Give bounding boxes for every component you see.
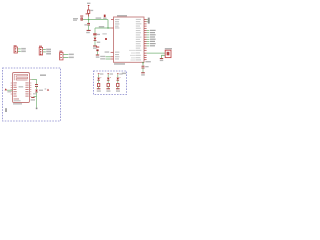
LED D5 [97, 78, 100, 80]
frame label WIFI [40, 74, 46, 76]
module right pins [30, 80, 32, 97]
frame LED box [94, 71, 127, 95]
wire power rail [83, 19, 108, 21]
wire down to capacitor [88, 20, 90, 24]
wire [98, 80, 100, 83]
diode D3 [96, 46, 99, 54]
ground GND7 [97, 88, 101, 90]
frame WIFI module box [3, 68, 61, 121]
wire IC bottom pin down [142, 64, 144, 66]
supply arrow at module left [5, 88, 13, 92]
resistor R2 [97, 83, 99, 86]
capacitor C3 [142, 66, 149, 68]
junction node at IC rail [107, 27, 108, 28]
connector X1 power input [73, 15, 83, 20]
wire capacitor to ground [142, 68, 144, 73]
wire capacitor to LED [36, 86, 38, 89]
LED column 1 [97, 73, 104, 92]
IC refdes text [117, 15, 127, 17]
module value text [13, 103, 22, 104]
capacitor C4 [35, 85, 38, 87]
small part right middle of box [45, 88, 50, 90]
ground GND2 [93, 46, 97, 49]
frame label LEDS [122, 73, 126, 75]
wire button to ground [162, 55, 166, 58]
ground GND1 [86, 30, 90, 33]
IC left pins [111, 20, 114, 59]
right net labels [150, 30, 156, 47]
module center text [19, 86, 24, 87]
net stub L1 [98, 74, 100, 77]
pushbutton S1 [165, 48, 172, 58]
wire [107, 80, 109, 83]
ground GND4 [141, 73, 145, 76]
wire left pin B [106, 58, 111, 60]
net stub L2 [107, 74, 109, 77]
gray text right of bottom edge [145, 61, 150, 62]
wire resistor to LED [94, 36, 96, 38]
net label VCC on rail [96, 17, 102, 18]
small gray text bottom-left of box [5, 108, 7, 112]
small part left of IC [102, 33, 107, 40]
LED D2 power indicator [94, 38, 101, 43]
IC IC1 body [114, 17, 145, 62]
module U2 ESP body [13, 73, 30, 103]
connector CN3 [59, 51, 73, 60]
wire LED to ground [94, 41, 96, 46]
resistor R1 [93, 33, 100, 35]
wire antenna stub [36, 97, 38, 108]
LED column 3 [116, 73, 123, 92]
IC right pin labels [136, 19, 142, 61]
junction power node [88, 19, 90, 21]
net stub L3 [117, 74, 119, 77]
connector CN2 [39, 46, 51, 55]
LED D6 [107, 78, 110, 80]
ground GND5 [96, 55, 100, 58]
supply VCC symbol [87, 3, 90, 10]
wire rail corner down at x108 [108, 20, 111, 28]
module left pins [11, 83, 13, 94]
connector CN1 [14, 45, 26, 53]
capacitor C1 [84, 23, 90, 25]
wire vcc branch to IC [95, 27, 111, 29]
antenna end [36, 108, 38, 110]
crystal Q1 [148, 18, 150, 24]
ground GND8 [106, 88, 110, 90]
wire LED down and to ground [33, 92, 36, 97]
antenna meander [14, 74, 27, 80]
wire left pin A [106, 56, 111, 58]
wire [117, 87, 119, 89]
left pin net labels [100, 51, 109, 59]
module pin name texts [13, 82, 28, 96]
right net label wires [147, 31, 150, 46]
ground GND6 [31, 97, 35, 100]
wire crystal pin 2 [147, 21, 148, 23]
resistor R4 [117, 83, 119, 86]
IC bottom pin [142, 62, 144, 63]
resistor R3 [107, 83, 109, 86]
IC value text [114, 63, 125, 64]
LED D4 [33, 90, 43, 95]
ground GND3 [160, 59, 163, 62]
wire reset long [147, 52, 165, 54]
wire power LED branch [94, 28, 96, 33]
module inner bottom text [14, 98, 19, 99]
IC long right labels faint [129, 50, 136, 61]
net label on IC rail [99, 26, 104, 27]
diode D1 [86, 10, 94, 20]
LED D7 [117, 78, 120, 80]
capacitor C2 near IC top [103, 15, 106, 19]
wire capacitor to ground [88, 25, 90, 30]
IC left pin labels [115, 19, 119, 60]
wire module right top branch [31, 80, 36, 85]
LED column 2 [106, 73, 113, 92]
wire [117, 80, 119, 83]
IC right pins [144, 20, 147, 60]
wire [107, 87, 109, 89]
junction bottom pin [142, 62, 143, 63]
wire crystal pin 1 [147, 19, 148, 21]
ground GND9 [116, 88, 120, 90]
wire [98, 87, 100, 89]
